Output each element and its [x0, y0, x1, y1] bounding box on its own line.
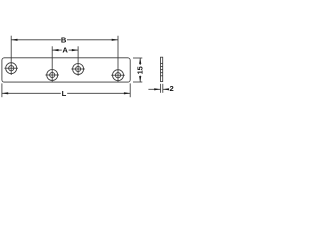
extension line B left	[10, 36, 12, 62]
hole 3	[71, 62, 85, 76]
hole 1	[4, 61, 18, 75]
svg-text:15: 15	[136, 66, 145, 74]
dimension line L	[2, 92, 130, 94]
dimension line 15	[139, 58, 141, 82]
extension line 2 left	[160, 84, 162, 93]
plate body front view	[2, 58, 130, 82]
dimension line 2 (arrows inward)	[148, 88, 169, 90]
extension line L left	[1, 83, 3, 97]
dimension line A	[52, 49, 78, 51]
dimension line B	[11, 39, 118, 41]
plate edge side view	[161, 57, 163, 81]
hole 2	[45, 68, 59, 82]
extension tick 15 top	[133, 57, 142, 59]
extension line 2 right	[162, 84, 164, 93]
svg-text:L: L	[62, 89, 67, 98]
extension tick 15 bottom	[133, 81, 142, 83]
extension line B right	[117, 36, 119, 69]
svg-text:2: 2	[169, 84, 173, 93]
extension line A right	[77, 46, 79, 62]
svg-text:B: B	[61, 35, 67, 44]
extension line A left	[51, 46, 53, 68]
hole 4	[111, 68, 125, 82]
svg-text:A: A	[62, 46, 68, 55]
extension line L right	[129, 83, 131, 97]
